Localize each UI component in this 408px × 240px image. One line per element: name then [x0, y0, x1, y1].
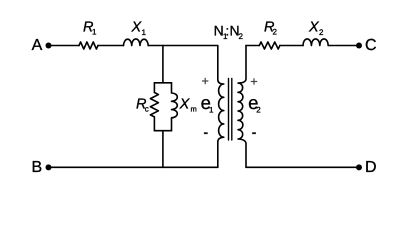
- terminal dot C: [356, 43, 362, 49]
- wire shunt box bottom: [154, 130, 171, 132]
- inductor Xm: [172, 83, 178, 131]
- polarity minus e1: [204, 132, 208, 134]
- svg-text:m: m: [191, 104, 197, 113]
- svg-text:c: c: [145, 104, 149, 113]
- resistor Rc: [150, 83, 158, 131]
- svg-text:1: 1: [209, 106, 214, 115]
- wire B to primary bottom: [49, 166, 218, 168]
- svg-text:2: 2: [273, 28, 278, 37]
- wire X2 to C: [328, 45, 359, 47]
- svg-text:2: 2: [319, 28, 324, 37]
- svg-text:1: 1: [92, 28, 97, 37]
- polarity plus e2: [251, 78, 257, 84]
- wire shunt box top: [154, 82, 171, 84]
- polarity minus e2: [252, 132, 256, 134]
- wire secondary bottom to D: [246, 166, 359, 168]
- wire shunt tap vertical: [162, 46, 164, 83]
- svg-text:X: X: [179, 97, 191, 113]
- svg-text:D: D: [365, 159, 377, 176]
- wire X1 to transformer primary top: [148, 45, 218, 47]
- inductor X2: [303, 39, 328, 46]
- svg-text:2: 2: [239, 32, 244, 41]
- wire A to R1: [49, 45, 80, 47]
- svg-text:1: 1: [142, 28, 147, 37]
- resistor R2: [259, 42, 280, 49]
- wire shunt bottom tap vertical: [162, 131, 164, 168]
- transformer secondary winding e2: [238, 46, 246, 168]
- transformer core line right: [231, 79, 233, 141]
- inductor X1: [124, 39, 149, 46]
- transformer primary winding e1: [218, 46, 224, 168]
- transformer core line left: [228, 79, 230, 141]
- wire R2 to X2: [280, 45, 303, 47]
- polarity plus e1: [202, 78, 208, 84]
- wire secondary top to R2: [246, 45, 259, 47]
- wire R1 to X1: [98, 45, 124, 47]
- svg-text:2: 2: [256, 106, 261, 115]
- terminal dot D: [356, 164, 362, 170]
- svg-text:A: A: [32, 37, 43, 54]
- resistor R1: [79, 42, 98, 49]
- svg-text:C: C: [365, 37, 377, 54]
- terminal dot B: [46, 164, 52, 170]
- svg-text:B: B: [32, 159, 43, 176]
- terminal dot A: [46, 43, 52, 49]
